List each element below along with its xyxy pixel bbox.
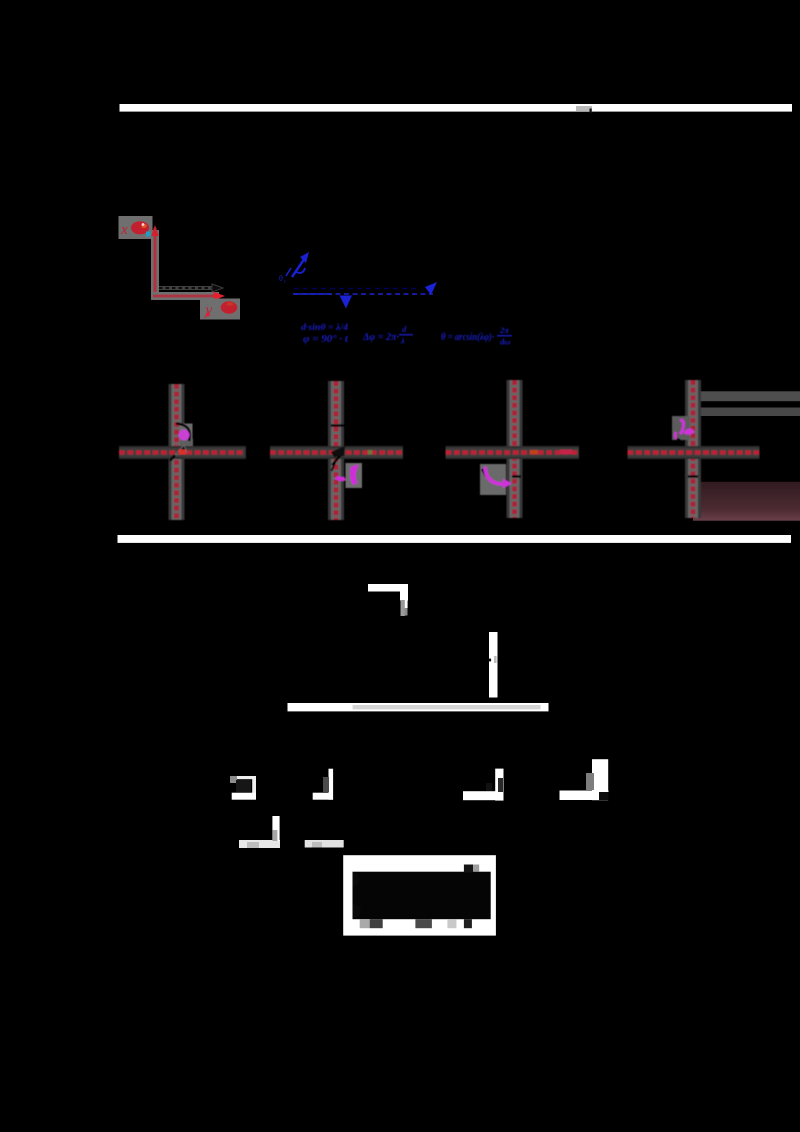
big box top glyph gray <box>473 865 479 872</box>
axes vertical arrowhead <box>151 225 159 236</box>
flow corner c <box>495 769 503 801</box>
C3 vertical dashes <box>512 380 517 518</box>
C2 vertical halo <box>328 381 344 520</box>
C2 black center blob <box>331 446 345 457</box>
big box frame <box>343 855 496 935</box>
flow corner a <box>232 776 256 779</box>
flow vertical bar <box>489 632 498 698</box>
svg-text:θ = arcsin(λφ)·: θ = arcsin(λφ)· <box>441 332 494 343</box>
blue down triangle <box>340 296 353 309</box>
svg-text:Δφ = 2π·: Δφ = 2π· <box>362 332 400 343</box>
C3 black tick right <box>512 475 521 477</box>
svg-text:2π: 2π <box>499 325 509 335</box>
big box interior <box>353 872 491 920</box>
big box bullet 1 <box>353 872 360 886</box>
right maroon block <box>693 482 800 521</box>
C2 black diagonals lower-left <box>332 456 340 465</box>
cross C3 <box>446 380 580 518</box>
C3 black mark <box>482 469 486 476</box>
axes cyan speck <box>146 232 151 237</box>
svg-text:λ: λ <box>400 336 405 346</box>
C4 black tick lower <box>688 475 698 477</box>
header gray patch <box>576 106 592 111</box>
C2 vertical dashes <box>334 381 339 520</box>
C1 vertical halo <box>169 384 185 520</box>
header black tick <box>590 109 592 114</box>
C4 magenta blob right <box>683 429 694 435</box>
C1 magenta dot <box>179 430 190 441</box>
flow low bar 2 <box>305 840 344 848</box>
C4 black marks <box>676 438 683 442</box>
blue angle arrowhead <box>300 252 309 263</box>
axes black dashed arrow <box>159 287 214 289</box>
axes label x circle hilite <box>141 224 147 228</box>
C3 magenta curved arrow <box>485 467 503 484</box>
axes label x circle <box>131 221 149 234</box>
navy dashed line <box>294 288 420 290</box>
axes horizontal arrowhead <box>214 292 226 300</box>
cross C4 <box>628 380 760 518</box>
C4 horizontal dashes <box>628 450 760 454</box>
big box top glyph dark <box>464 865 473 873</box>
cross C2 <box>270 381 403 520</box>
big box bottom marks <box>360 919 370 928</box>
C2 magenta halo box <box>346 463 363 488</box>
axes horizontal halo <box>151 292 219 300</box>
flow corner d <box>592 759 608 800</box>
C1 black arrowhead at center <box>175 445 187 455</box>
C2 horizontal dashes <box>270 450 403 454</box>
C1 black tick below center <box>170 455 175 461</box>
cross C1 <box>119 384 246 520</box>
bottom rule <box>118 535 792 543</box>
blue right arrowhead <box>425 282 437 295</box>
svg-text:d·sinθ = λ/4: d·sinθ = λ/4 <box>301 323 348 333</box>
axes vertical halo <box>151 230 159 297</box>
C1 halo box <box>180 424 193 442</box>
axes horizontal line <box>153 295 216 298</box>
blue dashed line <box>293 293 433 295</box>
top rule <box>120 104 793 112</box>
axes label x halo <box>119 216 153 239</box>
C3 pink dash right arm <box>560 450 572 455</box>
C3 horizontal dashes <box>446 450 580 454</box>
flow corner b <box>329 769 334 800</box>
C1 horizontal halo <box>119 446 246 459</box>
C1 vertical dashes <box>174 384 179 520</box>
C2 magenta glyph foot <box>336 478 345 480</box>
C2 black tick upper <box>331 424 344 426</box>
C4 horizontal halo <box>628 446 760 459</box>
C3 vertical halo <box>507 380 523 518</box>
big box bullet 2 <box>353 904 361 918</box>
blue angle arrow glyph <box>286 255 307 277</box>
axes label y halo <box>200 299 240 320</box>
right gray band 2 <box>694 408 800 417</box>
C1 black rotation arc <box>176 424 190 442</box>
axes label x circle speck <box>142 223 145 226</box>
C1 bright dash right of center <box>179 450 187 455</box>
C4 vertical dashes <box>691 380 696 518</box>
C4 magenta glyph spur <box>675 432 676 439</box>
C3 horizontal halo <box>446 446 580 459</box>
axes black arrowhead <box>212 284 223 292</box>
C1 horizontal dashes <box>119 450 243 454</box>
C3 magenta arrowhead <box>503 479 512 489</box>
axes vertical line <box>154 228 157 296</box>
flow low bar 1 <box>239 840 280 848</box>
C3 orange dash left arm <box>530 450 538 454</box>
flow top-corner shape <box>368 584 408 592</box>
C3 halo box <box>480 464 506 495</box>
axes label y circle hilite <box>227 302 234 306</box>
C4 vertical halo <box>685 380 701 518</box>
C4 gray halo label box <box>672 416 690 440</box>
C2 horizontal halo <box>270 446 403 459</box>
svg-text:x: x <box>120 222 128 238</box>
svg-text:dω: dω <box>500 337 510 347</box>
axes black dashed arrow halo <box>159 286 216 290</box>
C2 magenta arrowhead <box>351 464 359 473</box>
C2 olive dash <box>368 450 372 455</box>
axes label y speck <box>206 313 210 317</box>
C2 magenta glyph stem <box>353 467 355 484</box>
C4 magenta glyph stem <box>680 420 684 434</box>
flow long bar <box>288 703 549 711</box>
svg-text:φ = 90° · t: φ = 90° · t <box>303 334 349 345</box>
axes label y circle <box>221 301 237 313</box>
blue formula 2 fraction <box>399 324 413 346</box>
svg-text:θ₁: θ₁ <box>279 274 286 283</box>
blue formula 3 fraction <box>497 325 512 347</box>
right gray band 1 <box>694 391 800 401</box>
blue line solid left part <box>293 293 332 295</box>
